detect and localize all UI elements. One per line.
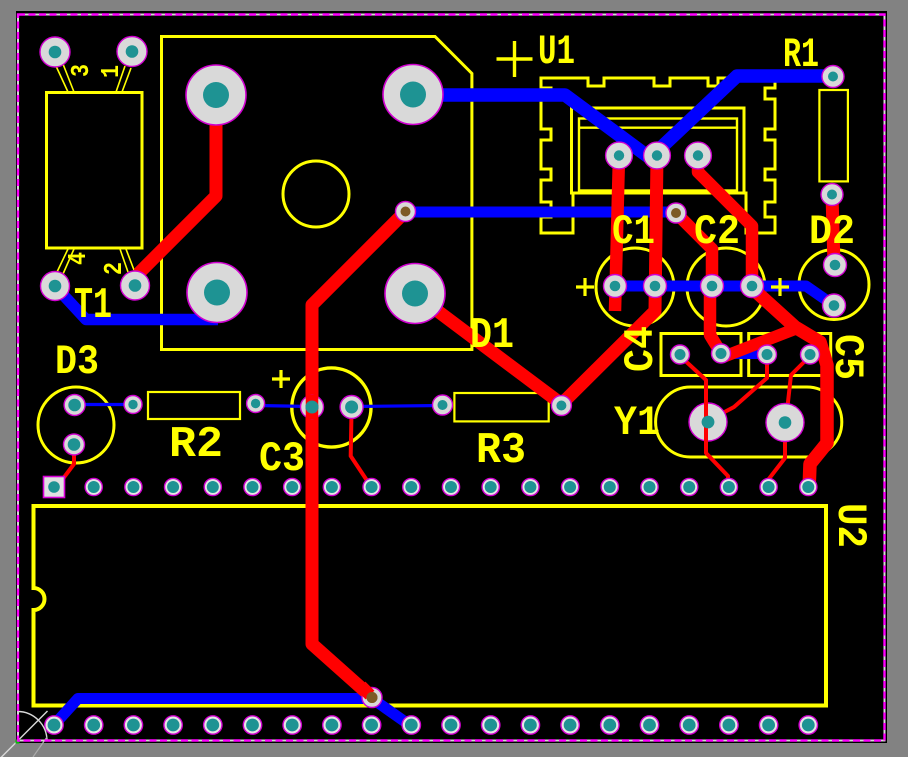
svg-text:R1: R1: [783, 31, 819, 79]
via right (U1 net): [666, 203, 686, 223]
pad U2-22 (bottom row): [759, 716, 777, 734]
pad C5-1: [758, 345, 777, 364]
pad C5-2: [801, 345, 820, 364]
pad Y1-1: [689, 403, 727, 441]
capacitor C2 circle: [687, 248, 765, 326]
wire red Y1 right to U2 pad 19: [768, 423, 785, 487]
wire blue via3 to U2 pad: [372, 699, 411, 727]
wire blue C3 to R3: [352, 406, 443, 407]
wire blue C4 to C5: [721, 349, 767, 359]
pad D2 anode: [823, 294, 846, 317]
pad U2-37 (bottom row): [164, 716, 182, 734]
bridge rectifier module outline: [162, 37, 472, 350]
wire red C2 left to C4 right: [710, 287, 721, 353]
origin crosshair diagonal: [0, 711, 48, 757]
via bottom hole (over trace): [367, 692, 378, 703]
svg-text:D1: D1: [470, 311, 514, 361]
pad U2-33 (bottom row): [323, 716, 341, 734]
pad U2-25 (bottom row): [640, 716, 658, 734]
pad R2-1: [124, 396, 142, 414]
svg-text:2: 2: [99, 262, 129, 275]
via bottom (C3 net): [362, 688, 382, 708]
pad U2-21 (bottom row): [799, 716, 817, 734]
pad C3 positive: [301, 396, 324, 419]
wire blue R2 to C3: [256, 406, 312, 407]
pad U2-26 (bottom row): [601, 716, 619, 734]
pad U2-19 (top row): [760, 478, 777, 495]
pad U2-17 (top row): [681, 478, 698, 495]
svg-text:1: 1: [96, 65, 126, 78]
svg-text:4: 4: [63, 252, 93, 265]
resistor R3 body: [454, 393, 548, 421]
resistor R1 body: [819, 90, 848, 181]
origin crosshair margin line: [33, 737, 47, 757]
pad T1-3: [40, 37, 70, 67]
diode D3 circle: [38, 387, 114, 463]
pad T1-1: [117, 37, 147, 67]
Y1-1 hole (over trace): [702, 416, 715, 429]
wire blue T1-4 to bridge: [55, 286, 218, 320]
pad bridge 2 (top-right): [383, 65, 443, 125]
transformer T1 body: [47, 93, 143, 249]
T1 pin 1 lead: [116, 66, 131, 92]
pad C1 negative: [644, 275, 667, 298]
T1 pin 3 lead: [56, 64, 74, 92]
wire red U1-2 C1 right R3 bridge BR: [415, 156, 657, 405]
pad C4-2: [712, 344, 731, 363]
pad bridge 1 (top-left): [186, 65, 246, 125]
C3 positive hole (over trace): [306, 401, 319, 414]
svg-text:Y1: Y1: [614, 399, 660, 447]
wire blue D3 to R2: [75, 403, 133, 406]
pad R3-1: [433, 395, 453, 415]
pad U2-32 (bottom row): [362, 716, 380, 734]
pad U2-39 (bottom row): [85, 716, 103, 734]
wire red C3 to U2 pad 9: [351, 407, 372, 487]
pad C4-1: [671, 345, 690, 364]
pad R3-2: [551, 396, 571, 416]
pad U2-40 (bottom row): [45, 716, 63, 734]
pad U1-1: [606, 142, 633, 169]
pad D3 anode: [64, 434, 85, 455]
pad U2-30 (bottom row): [442, 716, 460, 734]
regulator U1 heatsink outline: [541, 78, 775, 233]
svg-text:3: 3: [66, 64, 96, 77]
pad U2-5 (top row): [204, 478, 221, 495]
pad R1-1: [822, 66, 844, 88]
pad U2-15 (top row): [601, 478, 618, 495]
U1 tab divider line: [579, 126, 737, 128]
svg-text:C4: C4: [617, 326, 665, 372]
pad U2-4 (top row): [165, 478, 182, 495]
pad U2-20 (top row): [800, 478, 817, 495]
capacitor C4 body: [661, 334, 741, 376]
pad U2-18 (top row): [720, 478, 737, 495]
C3 plus mark: [272, 370, 290, 388]
wire red C2 right to U2 pad 20: [752, 288, 827, 490]
pad U2-27 (bottom row): [561, 716, 579, 734]
pad U2-31 (bottom row): [402, 716, 420, 734]
svg-text:R3: R3: [476, 426, 526, 476]
pad U1-2: [644, 142, 671, 169]
wire blue C1 C2 to D2: [615, 286, 834, 306]
wire red U1-3 to C2 right: [698, 156, 752, 287]
pad U2-2 (top row): [85, 478, 102, 495]
svg-text:R2: R2: [169, 420, 223, 470]
pad U2-29 (bottom row): [482, 716, 500, 734]
svg-text:U1: U1: [538, 28, 575, 76]
crystal Y1 outline: [656, 387, 842, 457]
IC U2 outline: [34, 506, 827, 706]
wire red R1 to D2: [832, 195, 834, 266]
wire blue bridge to R1 via U1: [413, 76, 833, 158]
pad U2-36 (bottom row): [204, 716, 222, 734]
bridge center circle: [283, 161, 349, 227]
pad C3 negative: [340, 396, 363, 419]
pad U2-34 (bottom row): [283, 716, 301, 734]
pad U2-23 (bottom row): [720, 716, 738, 734]
pad C1 positive: [604, 275, 627, 298]
U1 tab rectangle outer: [572, 108, 745, 193]
svg-text:D2: D2: [809, 208, 855, 256]
wire red over Y1-1 pad: [704, 402, 708, 442]
capacitor C5 body: [749, 334, 831, 376]
U1 tab rectangle inner: [579, 119, 737, 191]
pad bridge 3 (bottom-left): [187, 263, 247, 323]
wire red C5 right to Y1 right: [786, 356, 810, 420]
pad U2-7 (top row): [284, 478, 301, 495]
pad C2 positive: [701, 275, 724, 298]
pad R2-2: [247, 395, 265, 413]
svg-text:D3: D3: [55, 338, 99, 386]
diode D2 circle: [799, 250, 869, 320]
pad Y1-2: [766, 404, 804, 442]
pad U2-35 (bottom row): [243, 716, 261, 734]
via top (bridge to U1 net): [396, 202, 416, 222]
C1 plus mark: [576, 278, 594, 296]
wire red U1-1 to C1 left: [615, 156, 619, 312]
T1 pin 2 lead: [120, 249, 134, 272]
pad C2 negative: [741, 275, 764, 298]
wire red bridge TL to T1-2: [135, 95, 216, 284]
pad T1-2: [121, 271, 150, 300]
pad U2-10 (top row): [403, 478, 420, 495]
C2 plus mark: [771, 278, 789, 296]
svg-text:C1: C1: [612, 208, 655, 256]
pad U2-28 (bottom row): [521, 716, 539, 734]
svg-text:C3: C3: [259, 435, 305, 483]
svg-text:C2: C2: [694, 208, 740, 256]
pad U2-6 (top row): [244, 478, 261, 495]
pad D3 cathode: [64, 395, 85, 416]
origin green dot: [16, 740, 20, 744]
pad U2-24 (bottom row): [680, 716, 698, 734]
wire red D3 to U2 pad 1: [62, 447, 74, 480]
pad U2-1 (square): [44, 477, 65, 498]
pad U2-16 (top row): [641, 478, 658, 495]
pad U1-3: [685, 142, 712, 169]
resistor R2 body: [148, 392, 240, 419]
pad bridge 4 (bottom-right): [385, 264, 445, 324]
svg-text:U2: U2: [826, 503, 874, 548]
wire blue U2 bottom bus: [54, 699, 372, 726]
pad U2-12 (top row): [482, 478, 499, 495]
wire red C4 right junction: [723, 329, 795, 357]
pad U2-14 (top row): [562, 478, 579, 495]
svg-text:C5: C5: [823, 334, 871, 380]
U1 plus mark: [497, 41, 533, 77]
wire red C5 left to Y1 left: [717, 356, 767, 416]
svg-text:T1: T1: [74, 281, 112, 331]
capacitor C1 circle: [596, 248, 674, 326]
pad U2-9 (top row): [363, 478, 380, 495]
capacitor C3 circle: [292, 368, 371, 447]
wire red over via bottom: [361, 686, 370, 695]
wire red C4 left Y1 left U2 pad 18: [680, 356, 728, 487]
pad U2-8 (top row): [323, 478, 340, 495]
pad U2-13 (top row): [522, 478, 539, 495]
wire red via2 to C2 left: [676, 213, 712, 286]
wire blue via1 to via2: [405, 207, 676, 218]
wire red via1 to C3 to via3: [312, 212, 406, 698]
pad D2 cathode: [824, 254, 847, 277]
pad R1-2: [821, 184, 843, 206]
T1 pin 4 lead: [57, 249, 74, 274]
pad U2-11 (top row): [442, 478, 459, 495]
pad U2-3 (top row): [125, 478, 142, 495]
pad T1-4: [41, 272, 70, 301]
pad U2-38 (bottom row): [124, 716, 142, 734]
wire red over C3 positive pad: [306, 395, 319, 419]
origin crosshair arc: [18, 712, 48, 742]
